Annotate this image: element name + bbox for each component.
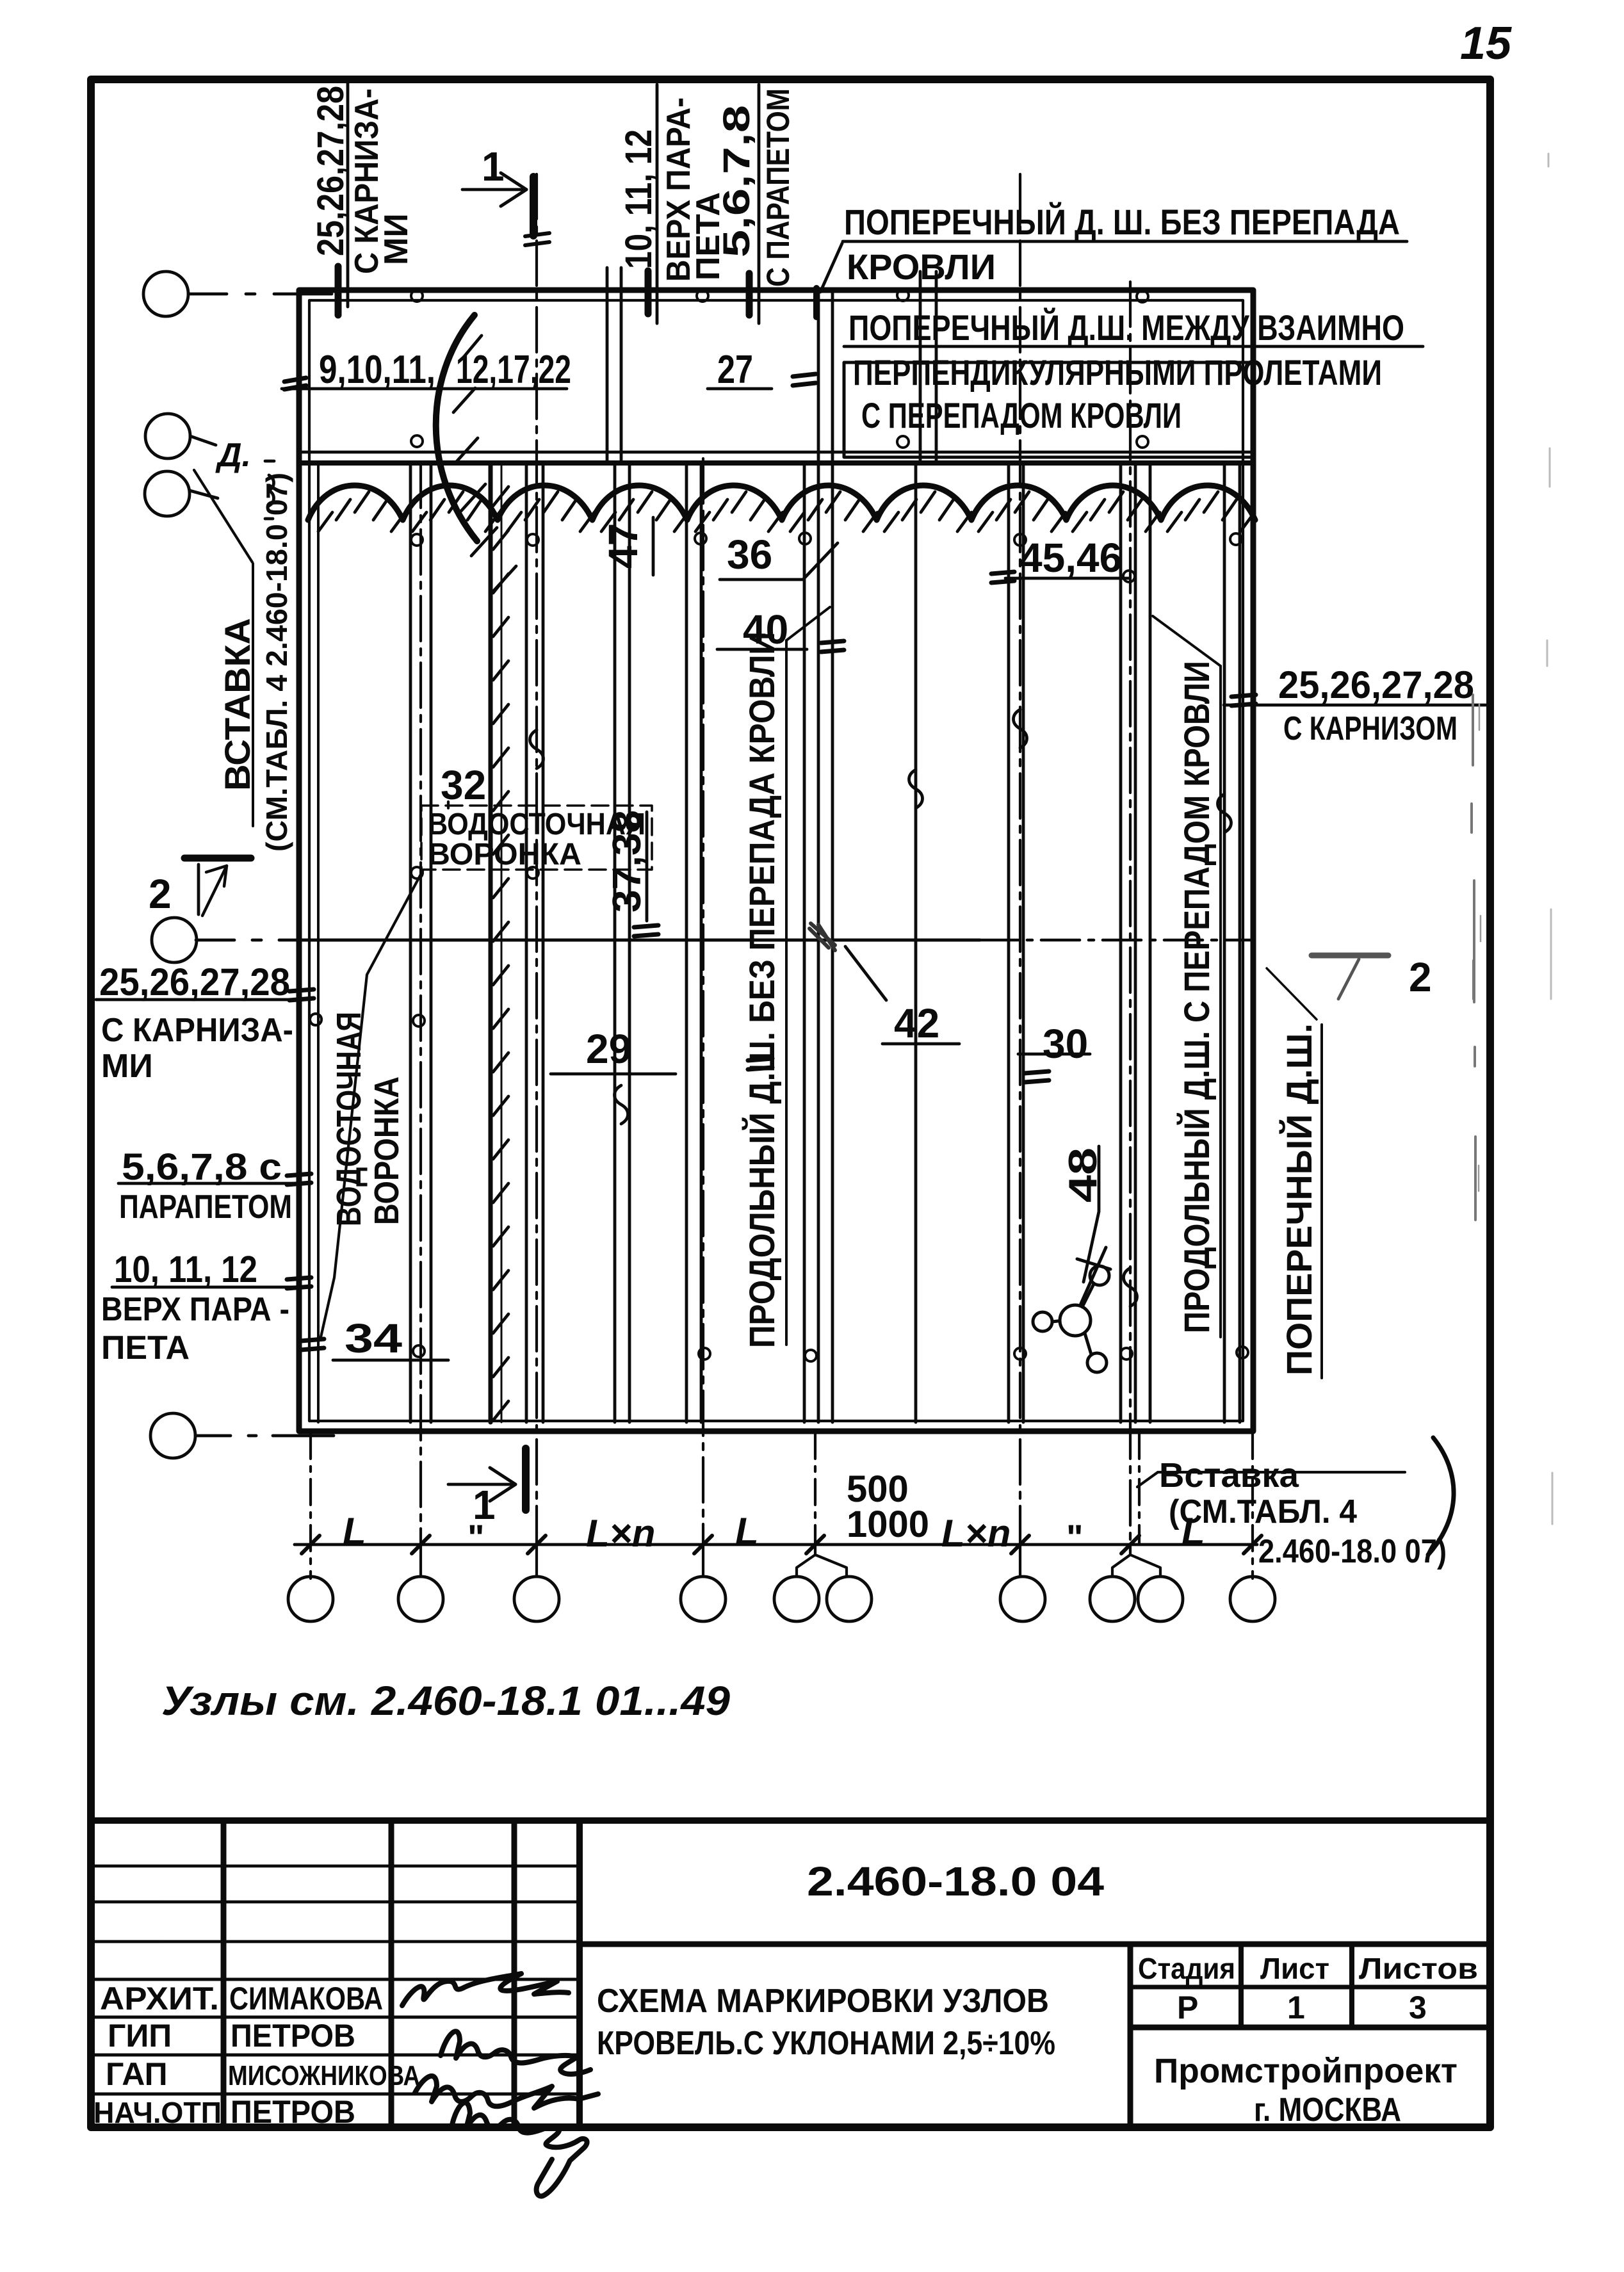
axis circles bottom row bbox=[288, 1577, 333, 1621]
label 30 underline bbox=[1018, 1053, 1090, 1056]
hatch ticks under scallop bbox=[318, 492, 1255, 531]
signature scribble gap bbox=[415, 2076, 598, 2108]
faint fold smudge right margin bbox=[1472, 695, 1475, 1220]
label 25-28 s karnizami underline (left) bbox=[96, 998, 296, 1002]
label 40 underline bbox=[717, 648, 807, 651]
small joint circles row 3 bbox=[413, 1345, 425, 1357]
svg-text:25,26,27,28: 25,26,27,28 bbox=[1278, 663, 1474, 706]
label 37,38 underline bbox=[646, 812, 649, 921]
svg-text:30: 30 bbox=[1043, 1021, 1088, 1067]
svg-text:(СМ.ТАБЛ. 4: (СМ.ТАБЛ. 4 bbox=[1169, 1493, 1357, 1530]
svg-text:ПЕТРОВ: ПЕТРОВ bbox=[231, 2018, 355, 2054]
label 34 underline bbox=[333, 1359, 448, 1362]
section mark 2 left bbox=[184, 855, 251, 862]
svg-text:L×n: L×n bbox=[941, 1512, 1011, 1555]
svg-text:ВОРОНКА: ВОРОНКА bbox=[428, 838, 581, 872]
svg-text:ПЕРПЕНДИКУЛЯРНЫМИ ПРОЛЕТАМИ: ПЕРПЕНДИКУЛЯРНЫМИ ПРОЛЕТАМИ bbox=[853, 352, 1382, 393]
axis circle bottom-left bbox=[150, 1413, 195, 1458]
svg-text:ПЕТРОВ: ПЕТРОВ bbox=[231, 2094, 355, 2130]
section mark 1 bottom bbox=[448, 1483, 516, 1486]
small joint circles row 2 bbox=[411, 867, 423, 879]
stage table lines bbox=[1130, 1985, 1490, 1990]
svg-text:": " bbox=[467, 1517, 485, 1557]
parapet band bottom divider (double line) bbox=[299, 451, 1253, 454]
box around transverse seam note bbox=[844, 362, 1252, 457]
dimension ticks bbox=[302, 1536, 1262, 1554]
svg-text:": " bbox=[1066, 1517, 1084, 1557]
svg-text:Стадия: Стадия bbox=[1138, 1952, 1235, 1985]
svg-text:ГАП: ГАП bbox=[106, 2056, 168, 2092]
title block thick vertical separators bbox=[576, 1821, 583, 2127]
svg-text:С ПЕРЕПАДОМ КРОВЛИ: С ПЕРЕПАДОМ КРОВЛИ bbox=[861, 395, 1181, 435]
svg-text:МИ: МИ bbox=[101, 1048, 153, 1085]
roof seam pair bbox=[1009, 463, 1023, 1422]
svg-text:ПОПЕРЕЧНЫЙ Д. Ш. БЕЗ ПЕРЕПА: ПОПЕРЕЧНЫЙ Д. Ш. БЕЗ ПЕРЕПАДА bbox=[844, 202, 1400, 242]
band label 9,10,11,12,17,22 underline bbox=[282, 387, 567, 391]
break squiggles on long lines bbox=[530, 730, 544, 768]
svg-text:25,26,27,28: 25,26,27,28 bbox=[310, 86, 352, 256]
svg-text:29: 29 bbox=[586, 1026, 631, 1072]
svg-text:Листов: Листов bbox=[1359, 1952, 1478, 1985]
section mark 1 top bbox=[462, 188, 526, 191]
svg-text:9,10,11,: 9,10,11, bbox=[319, 348, 435, 392]
svg-text:48: 48 bbox=[1061, 1148, 1105, 1203]
svg-text:СХЕМА МАРКИРОВКИ УЗЛОВ: СХЕМА МАРКИРОВКИ УЗЛОВ bbox=[597, 1983, 1049, 2020]
svg-text:5,6,7,8: 5,6,7,8 bbox=[716, 105, 758, 257]
svg-text:1: 1 bbox=[1287, 1990, 1305, 2025]
drain symbol molecule bbox=[1060, 1305, 1091, 1336]
svg-text:СИМАКОВА: СИМАКОВА bbox=[229, 1981, 383, 2016]
roof seam pair below band bbox=[615, 463, 629, 1422]
svg-text:2.460-18.0 07): 2.460-18.0 07) bbox=[1258, 1533, 1447, 1570]
svg-text:Р: Р bbox=[1177, 1990, 1198, 2025]
label 5,6,7,8 s parapetom underline (left) bbox=[118, 1182, 298, 1185]
label 25-28 s karnizom underline (right) bbox=[1224, 704, 1486, 707]
svg-text:10, 11, 12: 10, 11, 12 bbox=[618, 129, 660, 269]
svg-text:2: 2 bbox=[1409, 954, 1432, 1000]
svg-text:ГИП: ГИП bbox=[108, 2018, 172, 2054]
title block doc-number cell bottom line bbox=[580, 1942, 1490, 1947]
scalloped roof drainage line with hatching bbox=[308, 485, 1255, 520]
tick for nodes 10,11,12 top bbox=[645, 271, 652, 314]
label 36 underline and leader bbox=[720, 543, 838, 580]
svg-text:2: 2 bbox=[149, 871, 172, 917]
svg-text:АРХИТ.: АРХИТ. bbox=[100, 1981, 219, 2016]
svg-text:37,38: 37,38 bbox=[605, 810, 649, 913]
roof seam pair (axis B) band part bbox=[607, 268, 621, 463]
note1 underline bbox=[843, 240, 1407, 243]
D.Sh mark near left circles bbox=[265, 461, 274, 519]
svg-text:МИСОЖНИКОВА: МИСОЖНИКОВА bbox=[228, 2060, 420, 2091]
svg-text:L×n: L×n bbox=[586, 1512, 655, 1555]
svg-text:15: 15 bbox=[1460, 18, 1512, 69]
svg-text:34: 34 bbox=[345, 1315, 403, 1361]
label 48 underline and leader bbox=[1084, 1146, 1099, 1282]
tick bar on axis 27 bbox=[813, 288, 820, 317]
svg-text:47: 47 bbox=[600, 523, 646, 569]
svg-text:МИ: МИ bbox=[378, 213, 415, 265]
small joint circles top edge bbox=[411, 289, 1248, 1361]
roof seam vertical line near edge bbox=[317, 463, 320, 1422]
left signature-table column lines bbox=[221, 1822, 227, 2127]
svg-text:ПРОДОЛЬНЫЙ Д.Ш. БЕЗ ПЕРЕПАДА К: ПРОДОЛЬНЫЙ Д.Ш. БЕЗ ПЕРЕПАДА КРОВЛИ bbox=[742, 632, 782, 1348]
band label 27 underline bbox=[708, 387, 772, 391]
svg-text:Лист: Лист bbox=[1260, 1952, 1329, 1985]
roof seam single bbox=[914, 463, 918, 1422]
svg-text:ПАРАПЕТОМ: ПАРАПЕТОМ bbox=[119, 1189, 292, 1226]
tick for nodes 5,6,7,8 top bbox=[746, 273, 753, 315]
svg-text:г. МОСКВА: г. МОСКВА bbox=[1254, 2091, 1401, 2129]
drain funnel dashed box bbox=[421, 806, 652, 870]
axis circle stems bottom bbox=[421, 1545, 1020, 1577]
svg-text:Вставка: Вставка bbox=[1159, 1456, 1299, 1495]
svg-text:3: 3 bbox=[1409, 1990, 1427, 2025]
svg-text:27: 27 bbox=[717, 348, 753, 392]
svg-text:ПОПЕРЕЧНЫЙ Д.Ш.: ПОПЕРЕЧНЫЙ Д.Ш. bbox=[1279, 1023, 1319, 1375]
ridge line with hatch (drain divide) bbox=[489, 463, 493, 1422]
longitudinal seam triple line bbox=[804, 289, 832, 1422]
svg-text:36: 36 bbox=[727, 531, 772, 578]
svg-text:25,26,27,28: 25,26,27,28 bbox=[99, 961, 290, 1003]
roof seam vertical line bbox=[409, 463, 412, 1422]
band verticals above plan top bbox=[656, 85, 659, 323]
hatch on brace bbox=[453, 336, 516, 594]
label 32 leader bbox=[447, 802, 450, 808]
svg-text:ВОДОСТОЧНАЯ: ВОДОСТОЧНАЯ bbox=[330, 1012, 368, 1226]
big closing paren bbox=[1428, 1438, 1454, 1555]
svg-text:КРОВЕЛЬ.С УКЛОНАМИ 2,5÷10%: КРОВЕЛЬ.С УКЛОНАМИ 2,5÷10% bbox=[597, 2025, 1055, 2062]
signature scribble nach-otp bbox=[452, 2103, 587, 2196]
svg-text:5,6,7,8 с: 5,6,7,8 с bbox=[122, 1146, 282, 1188]
svg-text:(СМ.ТАБЛ. 4 2.460-18.0 07): (СМ.ТАБЛ. 4 2.460-18.0 07) bbox=[260, 473, 293, 852]
svg-text:НАЧ.ОТП: НАЧ.ОТП bbox=[93, 2096, 222, 2129]
section mark 2 right (faded) bbox=[1311, 955, 1388, 999]
svg-text:ВОРОНКА: ВОРОНКА bbox=[368, 1076, 406, 1225]
title block top edge bbox=[91, 1817, 1490, 1824]
roof seam vertical line bbox=[430, 463, 433, 1422]
svg-text:10, 11, 12: 10, 11, 12 bbox=[114, 1249, 257, 1290]
note2 underline bbox=[844, 345, 1423, 348]
small joint circles band bottom bbox=[411, 435, 423, 447]
axis circle pair left (D) bbox=[145, 414, 190, 458]
svg-text:Узлы см. 2.460-18.1 01...49: Узлы см. 2.460-18.1 01...49 bbox=[161, 1678, 730, 1724]
axis circle A top-left bbox=[143, 272, 188, 316]
middle horizontal roof line bbox=[196, 939, 305, 942]
signature scribble gip bbox=[441, 2031, 590, 2074]
roof seam pair bbox=[686, 463, 701, 1422]
svg-text:ПОПЕРЕЧНЫЙ Д.Ш. МЕЖДУ ВЗАИМНО: ПОПЕРЕЧНЫЙ Д.Ш. МЕЖДУ ВЗАИМНО bbox=[849, 307, 1404, 348]
svg-text:1: 1 bbox=[482, 143, 505, 190]
signature scribble arkhit bbox=[402, 1974, 569, 2006]
label 47 underline bbox=[652, 517, 655, 575]
label 29 underline bbox=[551, 1073, 676, 1076]
axis dash-dot verticals bbox=[535, 174, 538, 1545]
big brace curve in band bbox=[436, 315, 477, 541]
axis circle mid-left bbox=[152, 918, 197, 962]
hatch ticks on ridge line bbox=[493, 487, 508, 1420]
double tick on axis line bbox=[525, 233, 549, 245]
label 45,46 underline bbox=[1005, 577, 1128, 580]
label 10,11,12 verh parapeta underline (left) bbox=[112, 1286, 298, 1289]
svg-text:12,17,22: 12,17,22 bbox=[456, 348, 571, 392]
tick for nodes 25-28 top bbox=[335, 266, 342, 315]
left signature-table row lines bbox=[91, 1865, 580, 1868]
svg-text:ВЕРХ ПАРА -: ВЕРХ ПАРА - bbox=[101, 1291, 289, 1328]
label 42 leader and underline bbox=[845, 946, 886, 1000]
svg-text:L: L bbox=[735, 1510, 759, 1553]
small joint circles row 1 bbox=[411, 534, 423, 546]
roof plan outer edge (double line) bbox=[299, 290, 1253, 1431]
svg-text:ПРОДОЛЬНЫЙ Д.Ш. С ПЕРЕПАДОМ КР: ПРОДОЛЬНЫЙ Д.Ш. С ПЕРЕПАДОМ КРОВЛИ bbox=[1176, 661, 1217, 1333]
dimension line bottom bbox=[295, 1543, 1257, 1546]
svg-text:Д.: Д. bbox=[215, 437, 251, 474]
svg-text:С ПАРАПЕТОМ: С ПАРАПЕТОМ bbox=[760, 88, 796, 287]
svg-text:С КАРНИЗОМ: С КАРНИЗОМ bbox=[1283, 710, 1458, 747]
svg-text:С КАРНИЗА-: С КАРНИЗА- bbox=[101, 1012, 293, 1049]
svg-text:Промстройпроект: Промстройпроект bbox=[1154, 2052, 1458, 2090]
svg-text:L: L bbox=[343, 1510, 366, 1553]
right inner seam pair bbox=[1223, 463, 1226, 1422]
svg-text:32: 32 bbox=[441, 762, 486, 808]
page border frame bbox=[91, 79, 1490, 2127]
svg-text:КРОВЛИ: КРОВЛИ bbox=[847, 247, 996, 287]
leader from rotated drain text bbox=[321, 871, 423, 1337]
svg-text:ПЕТА: ПЕТА bbox=[101, 1329, 190, 1367]
svg-text:45,46: 45,46 bbox=[1019, 535, 1122, 581]
svg-text:ВСТАВКА: ВСТАВКА bbox=[217, 618, 257, 791]
longitudinal seam with drop, triple line bbox=[1121, 463, 1150, 1422]
svg-text:42: 42 bbox=[894, 1000, 939, 1046]
smudge crossing at center bbox=[809, 923, 835, 950]
note1 leader diagonal bbox=[820, 243, 842, 292]
vstavka leader bottom right bbox=[1137, 1472, 1405, 1487]
svg-text:1000: 1000 bbox=[847, 1504, 929, 1545]
long line pair above band bbox=[920, 272, 936, 463]
svg-text:2.460-18.0 04: 2.460-18.0 04 bbox=[807, 1858, 1104, 1904]
roof seam pair bbox=[526, 463, 543, 1422]
leader to vstavka note bbox=[194, 470, 252, 562]
